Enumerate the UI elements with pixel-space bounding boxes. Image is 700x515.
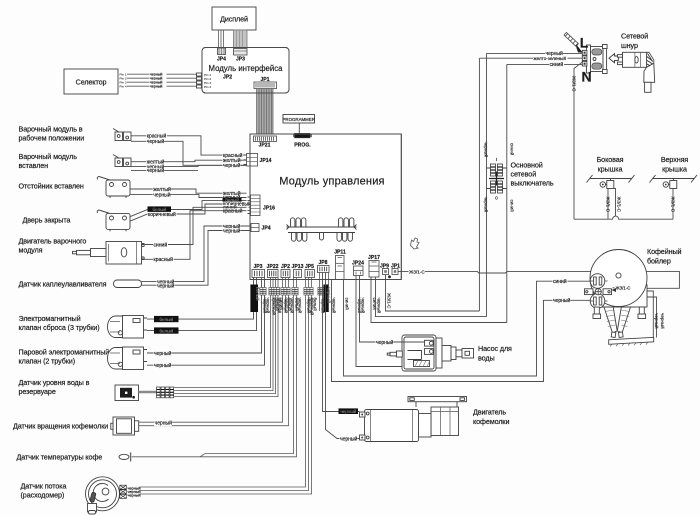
label: side cover (597, 155, 624, 174)
connector PROG. (293, 133, 312, 148)
svg-text:черный: черный (150, 85, 162, 89)
JP4 wire labels (223, 223, 241, 230)
microswitch S4 door (97, 210, 130, 231)
svg-text:Боковая: Боковая (597, 155, 624, 164)
label: water pump (478, 344, 512, 363)
svg-text:черный: черный (331, 298, 337, 314)
wire S4 brown (130, 204, 247, 221)
svg-text:синий: синий (553, 278, 567, 285)
connector JP17 (368, 255, 380, 277)
cursor mark inside module (411, 238, 420, 249)
svg-text:JP14: JP14 (260, 158, 272, 164)
svg-text:черный: черный (147, 167, 165, 174)
wire inlet PE yellow-green (479, 57, 582, 59)
svg-text:резервуаре: резервуаре (19, 387, 56, 396)
svg-text:белый: белый (159, 327, 173, 333)
wire drip sensor black a (142, 226, 252, 282)
hatched arrow to L terminal (564, 32, 583, 52)
svg-text:белый: белый (255, 287, 261, 301)
wire S1 red (131, 136, 247, 155)
svg-text:ЖЗ/1-С: ЖЗ/1-С (670, 197, 675, 213)
svg-text:белый: белый (159, 316, 173, 322)
connector JP1 (interface) (254, 77, 277, 89)
stub wire JP2 middle (285, 278, 287, 312)
svg-text:красный: красный (154, 256, 174, 263)
water level sensor B2 (115, 385, 139, 401)
svg-text:Pin 4: Pin 4 (120, 85, 127, 89)
connector JP2 (module) (281, 264, 290, 278)
svg-text:Селектор: Селектор (76, 78, 107, 87)
wires rotation sensor (2) + label black (139, 278, 289, 426)
wire S4 white (tag) (130, 201, 247, 217)
wire JP17 to mains blue (371, 277, 507, 323)
svg-text:Кофейный: Кофейный (647, 247, 682, 256)
mains vertical black (486, 53, 488, 316)
label: brew unit in working position (19, 125, 85, 143)
connector JP11 (334, 250, 346, 280)
boiler base plate (609, 337, 654, 346)
svg-text:JP24: JP24 (352, 260, 364, 266)
svg-text:черный: черный (155, 419, 173, 426)
label: brew unit inserted (19, 152, 78, 170)
wire selector pin4 to JP2 (black) (127, 84, 197, 89)
svg-text:Датчик потока: Датчик потока (21, 482, 67, 491)
thermal fuse right (617, 307, 630, 337)
svg-text:синий: синий (509, 200, 515, 213)
svg-text:Датчик каплеулавливателя: Датчик каплеулавливателя (19, 280, 107, 289)
interface module board (202, 48, 289, 94)
wire JP24 to pump body (356, 276, 402, 367)
wire inlet L black (487, 52, 583, 54)
connector JP13 (292, 264, 304, 278)
ground bus of covers (574, 216, 673, 219)
connector JP3 (252, 264, 265, 278)
svg-text:L: L (580, 35, 589, 51)
switch wire color tags (483, 142, 489, 158)
svg-text:черный: черный (553, 297, 571, 304)
microswitch S2 brew-unit-inserted (113, 155, 131, 167)
label: drip sensor (19, 280, 107, 289)
label: grinder motor (473, 408, 509, 427)
svg-text:JP21: JP21 (259, 143, 271, 149)
heater terminal top (590, 274, 607, 289)
svg-text:клапан (2 трубки): клапан (2 трубки) (19, 357, 76, 366)
coffee boiler body (590, 250, 647, 308)
top cover chassis symbol (650, 175, 698, 183)
svg-text:черный: черный (223, 227, 241, 234)
svg-text:выключатель: выключатель (511, 179, 554, 188)
connector JP4 (interface) (217, 48, 226, 63)
svg-text:JP4: JP4 (262, 226, 271, 232)
connector JP16 (248, 195, 276, 216)
wire JP9 to PE vertical (386, 275, 480, 312)
terminal L letter (580, 35, 589, 51)
svg-text:клапан сброса (3 трубки): клапан сброса (3 трубки) (19, 323, 100, 332)
svg-text:модуля: модуля (19, 246, 43, 255)
svg-text:черный: черный (266, 298, 272, 314)
svg-text:черный: черный (654, 313, 660, 329)
svg-text:воды: воды (478, 354, 495, 363)
wires flow meter (3) (140, 278, 312, 495)
wire S3 black (130, 195, 247, 198)
svg-text:Сетевой: Сетевой (621, 32, 648, 41)
label: coffee temperature sensor (17, 453, 103, 462)
svg-text:JP16: JP16 (263, 206, 275, 212)
solenoid valve Y1 (release) (108, 316, 148, 339)
wire JP8 to grinder (black tag) (323, 273, 360, 412)
label: steam solenoid valve (19, 348, 110, 366)
svg-text:ЖЗ/1-С: ЖЗ/1-С (572, 76, 577, 92)
wire S2 black b (131, 169, 198, 171)
wire S2 yellow (131, 160, 247, 162)
wire brew motor red (145, 211, 247, 260)
mains vertical blue (506, 64, 508, 322)
drip sensor B1 (114, 280, 142, 288)
label: main power switch (511, 161, 554, 188)
svg-text:шнур: шнур (621, 41, 638, 50)
svg-text:JP2: JP2 (223, 75, 232, 81)
svg-text:черный: черный (483, 197, 489, 213)
rotation sensor B3 (111, 417, 139, 435)
wire S1 black (131, 141, 247, 165)
water pump M2 (387, 335, 473, 371)
svg-text:черный: черный (660, 313, 666, 329)
svg-text:Датчик вращения кофемолки: Датчик вращения кофемолки (13, 422, 108, 431)
svg-text:Паровой электромагнитный: Паровой электромагнитный (19, 348, 110, 357)
svg-text:кофемолки: кофемолки (473, 417, 509, 426)
svg-text:черный: черный (153, 191, 171, 198)
svg-text:Pin 4: Pin 4 (204, 85, 211, 89)
svg-text:ЖЗ/1-С: ЖЗ/1-С (616, 197, 621, 213)
temperature sensor B4 (119, 452, 131, 461)
svg-text:черный: черный (223, 162, 241, 169)
label: sump inserted (19, 182, 84, 191)
wires water level sensor (4) (174, 278, 278, 397)
svg-text:черный: черный (360, 298, 366, 314)
display unit (212, 7, 256, 30)
svg-text:PROGRAMMER: PROGRAMMER (282, 117, 314, 122)
svg-text:коричневый: коричневый (148, 211, 176, 218)
JP14 wire labels (223, 152, 244, 159)
svg-text:Варочный модуль: Варочный модуль (19, 152, 78, 161)
label: top cover (661, 155, 689, 174)
control module border restroke (250, 134, 401, 280)
svg-text:черный: черный (154, 350, 172, 357)
microswitch S3 sump (97, 177, 130, 199)
side cover ground wires (608, 189, 616, 220)
flow meter wire labels black x3 (128, 486, 141, 490)
label: coffee boiler (647, 247, 682, 266)
connector JP24 (352, 260, 364, 275)
top cover ground wire (672, 189, 674, 220)
microswitch S1 brew-unit-position (113, 129, 131, 141)
svg-text:синий: синий (509, 143, 515, 156)
top cover ground terminal (663, 179, 677, 189)
wire PROGRAMMER to PROG connector (298, 123, 300, 134)
selector pin labels (120, 73, 127, 89)
wire inlet N blue (507, 63, 583, 65)
wire JP24 to pump terminal (black) (360, 276, 425, 343)
wire boiler black loop (to JP8) (332, 280, 591, 382)
terminal N letter (581, 69, 591, 85)
wire valve Y1 white a (tag) (147, 278, 254, 320)
wire selector pin3 to JP2 (black) (127, 80, 197, 85)
flow meter connector pins (120, 485, 127, 498)
main power switch S5 (487, 157, 507, 201)
wire PE to covers bus (574, 62, 583, 219)
connector JP14 (244, 154, 272, 167)
crimp contact blocks below control module (260, 288, 324, 296)
svg-text:JP4: JP4 (217, 57, 226, 63)
svg-text:крышка: крышка (662, 165, 687, 174)
svg-text:бойлер: бойлер (647, 257, 671, 266)
wire display to JP4 (3 conductors) (219, 30, 224, 48)
side cover ground terminal (600, 179, 614, 189)
open arrow (plug direction) (609, 54, 618, 63)
wire valve Y1 white b (tag) (147, 278, 257, 331)
svg-text:Датчик уровня воды в: Датчик уровня воды в (19, 378, 90, 387)
power plug (618, 52, 655, 92)
svg-text:Дверь закрыта: Дверь закрыта (23, 216, 71, 225)
connector JP21 (254, 136, 277, 149)
boiler earth label and arrow (615, 286, 631, 292)
solenoid valve Y2 (steam) (108, 347, 148, 370)
svg-text:Насос для: Насос для (478, 344, 512, 353)
heater terminal bottom (590, 294, 607, 309)
connector JP5 (305, 264, 315, 278)
svg-text:крышка: крышка (598, 165, 623, 174)
label: grinder rotation sensor (13, 422, 108, 431)
water sensor cable (139, 391, 157, 394)
grinder motor M3 (360, 397, 467, 442)
connector JP22 (267, 264, 279, 278)
svg-text:Варочный модуль в: Варочный модуль в (19, 125, 83, 134)
svg-text:вставлен: вставлен (19, 161, 49, 170)
ribbon cable JP1 to JP21 (257, 89, 274, 137)
label: power cord (621, 32, 648, 50)
svg-text:JP3: JP3 (236, 57, 245, 63)
power inlet connector X1 (582, 45, 607, 74)
protective earth wire from JP1 (398, 271, 679, 288)
connector JP9 (380, 264, 389, 275)
svg-text:черный: черный (154, 362, 172, 369)
vertical wire color tags below control module (250, 285, 258, 313)
svg-text:Верхняя: Верхняя (661, 155, 689, 164)
JP16 wire labels (223, 190, 241, 197)
boiler right return wires (647, 291, 657, 338)
wire S3 yellow (130, 189, 247, 193)
svg-text:черный: черный (483, 142, 489, 158)
svg-text:черный: черный (297, 298, 303, 314)
svg-text:Двигатель варочного: Двигатель варочного (19, 237, 87, 246)
wires temperature sensor (132, 278, 297, 457)
label: tank water level sensor (19, 378, 90, 396)
svg-text:черный: черный (340, 408, 356, 414)
wire selector pin2 to JP2 (black) (127, 76, 197, 81)
svg-text:JP11: JP11 (334, 250, 346, 256)
flow meter B5 (86, 477, 120, 514)
wire selector pin1 to JP2 (black) (127, 72, 197, 77)
svg-text:Модуль интерфейса: Модуль интерфейса (209, 64, 284, 73)
svg-text:JP2: JP2 (281, 264, 290, 270)
wire brew motor blue (145, 207, 247, 244)
wire valve Y2 black a (147, 278, 262, 354)
svg-text:PROG.: PROG. (294, 143, 311, 149)
svg-text:черный: черный (376, 339, 394, 346)
wire JP8 to grinder black (326, 273, 360, 439)
wire S2 black a (131, 165, 247, 166)
boiler ground terminal (585, 289, 612, 295)
boiler legs (593, 307, 646, 319)
connector JP1 (module) (391, 264, 400, 275)
heat sink (287, 218, 357, 241)
svg-text:ЖЗ/1-С: ЖЗ/1-С (386, 293, 391, 309)
svg-text:JP5: JP5 (305, 264, 314, 270)
water sensor connector (157, 387, 174, 398)
svg-text:Отстойник вставлен: Отстойник вставлен (19, 182, 84, 191)
mounting hole (388, 275, 391, 278)
label: flow sensor (21, 482, 67, 500)
connector JP4 (module) (248, 224, 271, 232)
selector unit (64, 69, 118, 94)
svg-text:белый: белый (312, 298, 318, 312)
thermal fuse left (604, 307, 617, 337)
ribbon cable display to JP3 (234, 30, 248, 48)
svg-text:сетевой: сетевой (511, 170, 537, 179)
connector JP2 pins (interface left edge) (197, 73, 233, 89)
side cover chassis symbol (587, 175, 635, 183)
brew motor M1 (73, 242, 145, 265)
label: brew unit motor (19, 237, 87, 255)
svg-text:желто-зеленый: желто-зеленый (534, 55, 567, 61)
wire drip sensor black b (142, 231, 252, 286)
svg-text:черный: черный (376, 298, 382, 314)
svg-text:ЖЗ/1-С: ЖЗ/1-С (409, 269, 425, 274)
svg-text:синий: синий (550, 61, 564, 68)
svg-text:I: I (496, 157, 497, 162)
wire JP17 to mains black (376, 277, 487, 317)
svg-text:черный: черный (147, 138, 165, 145)
label: door closed (23, 216, 71, 225)
mains vertical yellow-green (478, 58, 480, 311)
interface module border restroke (202, 48, 289, 94)
svg-text:черный: черный (340, 436, 358, 443)
svg-text:Двигатель: Двигатель (473, 408, 506, 417)
stub wires JP8 (320, 273, 329, 312)
connector JP8 (318, 260, 330, 273)
wire valve Y2 black b (147, 278, 265, 366)
svg-text:синий: синий (154, 241, 168, 248)
label: release solenoid valve (19, 314, 100, 332)
control module board (250, 134, 401, 280)
svg-text:синий: синий (344, 298, 350, 311)
svg-text:Дисплей: Дисплей (220, 15, 248, 24)
svg-text:ЖЗ/1-С: ЖЗ/1-С (605, 197, 610, 213)
svg-text:JP3: JP3 (253, 264, 262, 270)
svg-text:Основной: Основной (511, 161, 543, 170)
svg-text:черный: черный (157, 282, 175, 289)
svg-text:JP13: JP13 (292, 264, 304, 270)
PROGRAMMER box (282, 115, 314, 124)
svg-text:ЖЗ/1-С: ЖЗ/1-С (616, 286, 631, 291)
svg-text:JP22: JP22 (267, 264, 279, 270)
svg-text:рабочем положении: рабочем положении (19, 134, 85, 143)
svg-text:Электромагнитный: Электромагнитный (19, 314, 81, 323)
wire boiler blue loop (to JP11) (344, 280, 591, 377)
connector JP3 (interface) (234, 49, 248, 63)
svg-text:(расходомер): (расходомер) (21, 491, 65, 500)
svg-text:Модуль управления: Модуль управления (279, 176, 384, 188)
svg-text:N: N (581, 69, 591, 85)
svg-text:черный: черный (128, 494, 141, 498)
svg-text:Датчик температуры кофе: Датчик температуры кофе (17, 453, 103, 462)
